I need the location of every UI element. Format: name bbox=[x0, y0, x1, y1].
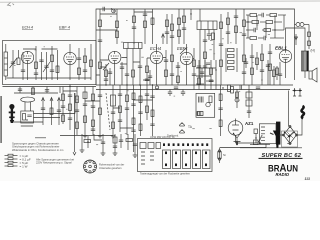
mechanical link dashed bbox=[106, 93, 110, 130]
PSU column x120 bbox=[118, 85, 122, 132]
variable capacitor C1 with arrow bbox=[10, 50, 21, 78]
V4 plate column bbox=[192, 48, 196, 90]
tone network row2 bbox=[246, 21, 282, 24]
svg-text:RADIO: RADIO bbox=[276, 172, 290, 177]
taps left of transformer bbox=[254, 129, 258, 143]
decoupling C6 bbox=[77, 48, 81, 80]
wire: feed to legend area bbox=[35, 93, 76, 155]
column R14 bbox=[151, 9, 154, 44]
diode mark bbox=[295, 34, 298, 45]
mains cord squiggle (bold) bbox=[301, 106, 304, 118]
detector network bbox=[203, 30, 207, 86]
output coupling caps bbox=[266, 60, 282, 85]
plate feed wire bbox=[286, 28, 306, 45]
aerial frame bbox=[282, 131, 298, 147]
PSU column x63 bbox=[61, 87, 65, 125]
AF box (detector shield) bbox=[196, 93, 215, 117]
tube socket diagram bbox=[84, 160, 97, 173]
main chassis box outline bbox=[96, 9, 295, 85]
right HT column bbox=[295, 23, 310, 27]
hanging comps below left bus bbox=[14, 85, 71, 95]
wire: psu crosslinks bbox=[63, 91, 153, 128]
column x228 bbox=[226, 12, 230, 44]
AVC feed column B bbox=[50, 98, 53, 126]
osc coil column bbox=[170, 14, 174, 85]
magic eye socket box bbox=[21, 111, 34, 123]
coil L1 bbox=[21, 52, 25, 80]
grid resistor column x262 bbox=[260, 44, 264, 85]
shelf line under symbols bbox=[240, 147, 302, 149]
resistor ladder bbox=[226, 48, 237, 72]
wire: lower links in left box bbox=[7, 49, 92, 78]
scan artifact: left page-edge dark bar bbox=[0, 96, 1, 143]
cathode RC network of V6 bbox=[276, 66, 279, 80]
value label speckles bbox=[13, 16, 270, 144]
wire: links y14 bbox=[96, 12, 153, 30]
switch contact strip top bbox=[163, 143, 208, 146]
rectifier diamond bbox=[283, 126, 298, 145]
column R13 bbox=[143, 9, 147, 44]
column x221 bbox=[219, 14, 223, 85]
switch unit box bbox=[138, 139, 213, 172]
column x167 bbox=[165, 14, 169, 44]
AVC feed column C bbox=[57, 98, 61, 126]
svg-text:= 1 W: = 1 W bbox=[20, 165, 28, 169]
lamp feed column bbox=[308, 25, 311, 50]
column x237 top bbox=[235, 89, 239, 108]
wire: eye block bottom bbox=[14, 122, 43, 126]
tone network row1 bbox=[246, 13, 286, 17]
left front-end box outline bbox=[3, 41, 97, 85]
oscillator cap C3 bbox=[39, 52, 43, 80]
pickup plug with cord bbox=[250, 135, 270, 145]
switch wafer sections bbox=[163, 150, 211, 169]
psu lower column x115 bbox=[113, 134, 118, 155]
screen resistor R10 bbox=[98, 9, 102, 85]
svg-text:(H): (H) bbox=[311, 49, 315, 53]
column x220.6 bbox=[218, 85, 222, 136]
dial pointer key (solid) bbox=[9, 104, 15, 123]
grid resistor R2 bbox=[34, 46, 38, 80]
resistor R6 bbox=[90, 44, 93, 80]
tube V2 EBF4 bbox=[64, 44, 76, 80]
PSU column x147 bbox=[145, 85, 149, 120]
extra detector comps bbox=[180, 48, 259, 90]
tube V6 EBL1 output bbox=[279, 42, 291, 78]
column x270 bbox=[268, 44, 272, 85]
PSU column x77 bbox=[75, 87, 79, 136]
osc arrow bbox=[162, 34, 165, 44]
svg-text:UKW MW LW KW TA: UKW MW LW KW TA bbox=[150, 135, 175, 139]
svg-text:EBF 4: EBF 4 bbox=[59, 25, 71, 30]
tone network row3 bbox=[246, 28, 284, 32]
switch coil windows left bbox=[140, 143, 161, 149]
coupling column x252 bbox=[250, 44, 254, 85]
chassis bus double line left bbox=[3, 86, 97, 88]
mains transformer core (solid) bbox=[276, 122, 280, 145]
pickup jacks PU bbox=[180, 122, 193, 133]
psu lower column x128 bbox=[126, 134, 133, 150]
aerial symbol bbox=[284, 132, 295, 144]
cathode parts of V3 bbox=[103, 63, 109, 85]
cap C41 on bus bbox=[181, 90, 185, 97]
PSU column x70 bbox=[68, 87, 72, 131]
column x236 bbox=[234, 9, 238, 44]
extra IF stage comps bbox=[100, 60, 153, 86]
tube V1 ECH4 bbox=[21, 51, 33, 80]
PSU column x100 bbox=[98, 85, 103, 138]
svg-text:113: 113 bbox=[305, 177, 311, 181]
IF transformer T1 box bbox=[124, 43, 143, 49]
PSU column x152.5 bbox=[150, 85, 154, 136]
PSU column x85 bbox=[83, 87, 88, 138]
legend symbol row 1 bbox=[5, 154, 29, 158]
PSU choke box bbox=[111, 85, 116, 138]
column x191 bbox=[190, 9, 191, 20]
cap at V4 grid bbox=[176, 62, 180, 85]
title underline bbox=[259, 157, 303, 159]
bus comps right bbox=[222, 85, 241, 92]
tone network row4 bbox=[246, 36, 284, 40]
wafer contact dots bbox=[165, 152, 207, 167]
leads T2 bbox=[200, 9, 214, 85]
components under bus bbox=[174, 87, 260, 94]
wire: psu bottom bus bbox=[60, 135, 113, 137]
resistor R5 bbox=[83, 48, 87, 80]
wire: mid links bbox=[96, 58, 194, 76]
fuse Si bbox=[218, 148, 221, 163]
svg-text:Widerstande in Ohm, Kondensato: Widerstande in Ohm, Kondensatoren in cm bbox=[12, 148, 64, 152]
psu lower column x82 bbox=[80, 134, 91, 152]
PSU column x140.5 bbox=[138, 85, 142, 136]
svg-text:EBL1: EBL1 bbox=[275, 46, 287, 51]
svg-text:EBF4: EBF4 bbox=[177, 46, 188, 51]
volume pot column bbox=[242, 9, 246, 85]
speaker terminal Y symbol bbox=[233, 132, 241, 145]
PSU column x127 bbox=[125, 85, 129, 135]
wire: bottom secondary segments bbox=[96, 89, 290, 91]
cap C40 on bus bbox=[168, 90, 172, 97]
tube V4 ECH4 mixer bbox=[150, 44, 162, 85]
legend symbol row 4 bbox=[5, 165, 28, 169]
scan artifact: mark top-left bbox=[7, 3, 14, 7]
svg-text:ECH 4: ECH 4 bbox=[22, 25, 34, 30]
psu lower column x103 bbox=[101, 134, 106, 155]
variable capacitor C4 with arrow bbox=[43, 52, 50, 80]
output transformer T3 bbox=[302, 45, 309, 78]
legend symbol row 3 bbox=[5, 161, 29, 165]
resistor R3 bbox=[50, 46, 54, 80]
tube V5 EBF4 demodulator bbox=[180, 44, 192, 85]
AVC column bbox=[132, 9, 136, 44]
psu lower column x121 bbox=[119, 134, 123, 148]
tone net vertical links bbox=[247, 15, 284, 38]
magic eye EM4 oval bbox=[21, 97, 35, 111]
rectifier tube V7 AZ1 bbox=[228, 119, 243, 144]
PSU column x133.5 bbox=[131, 85, 135, 152]
column x179 bbox=[178, 9, 181, 44]
tube V3 EBF4 IF amplifier bbox=[109, 51, 121, 85]
column x184 bbox=[182, 9, 186, 44]
svg-text:Si: Si bbox=[223, 153, 226, 157]
IF transformer T2 box bbox=[197, 21, 217, 30]
psu lower wire L bbox=[94, 134, 102, 140]
PSU column x93 bbox=[91, 87, 95, 136]
legend symbol row 2 bbox=[5, 158, 31, 162]
wire rect tube to transformer bbox=[236, 142, 260, 144]
AVC feed column A bbox=[41, 98, 45, 126]
grid cap C20 bbox=[164, 50, 168, 85]
svg-text:ECH4: ECH4 bbox=[150, 46, 162, 51]
wires mains area bbox=[220, 91, 303, 148]
mains transformer primary box bbox=[259, 124, 276, 144]
svg-text:AZ1: AZ1 bbox=[245, 121, 254, 126]
svg-text:220V Netzspannung o. Signal: 220V Netzspannung o. Signal bbox=[36, 161, 72, 165]
IF decoupling column bbox=[116, 9, 119, 44]
plug silhouette (solid) bbox=[270, 131, 280, 149]
B+ rail components on top edge bbox=[103, 7, 115, 13]
svg-text:TA: TA bbox=[188, 125, 193, 129]
psu lower column x135 bbox=[133, 134, 138, 157]
detector caps T2 bbox=[207, 30, 215, 41]
loudspeaker LS bbox=[309, 68, 317, 82]
mains plug bbox=[293, 88, 303, 96]
scan artifact: page top edge line bbox=[0, 1, 320, 2]
wire: bottom bus main bbox=[96, 84, 293, 86]
switch inner marks bbox=[141, 152, 154, 164]
svg-text:Unterseite gesehen: Unterseite gesehen bbox=[99, 166, 122, 170]
dropper resistors right column bbox=[246, 85, 252, 118]
junction blob bbox=[155, 86, 158, 90]
tuning drive lines bbox=[34, 93, 76, 118]
antenna input components bbox=[4, 44, 8, 80]
components below T1 bbox=[125, 49, 149, 86]
svg-text:Tastenaggregat von der Rucksei: Tastenaggregat von der Ruckseite gesehen bbox=[140, 172, 191, 176]
detector cluster bbox=[196, 60, 214, 90]
coil L2 bbox=[56, 50, 59, 80]
